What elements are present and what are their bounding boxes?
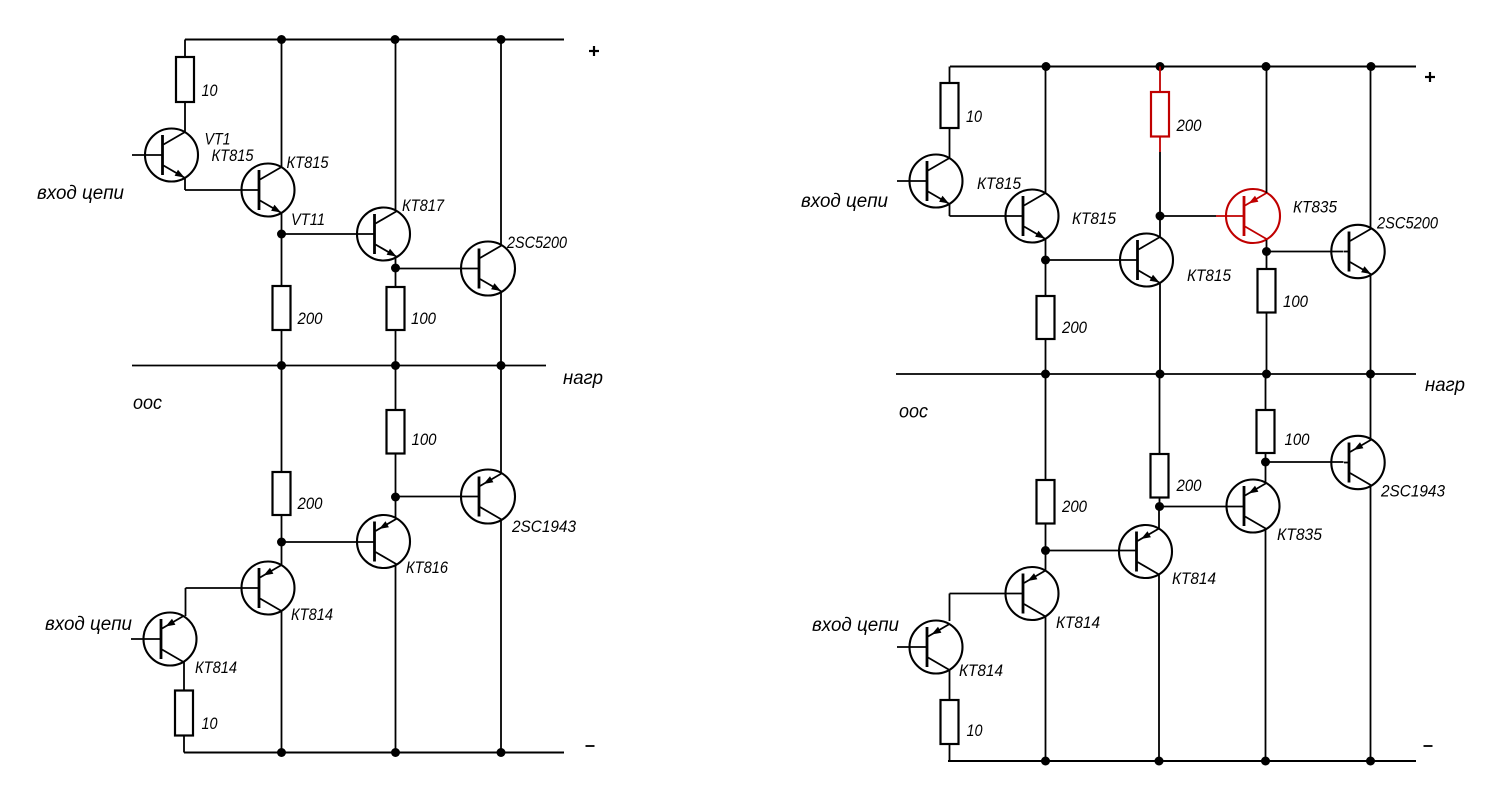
wire KT815 emitter junction down to resistor 200 (right upper): [1045, 260, 1047, 296]
svg-text:вход цепи: вход цепи: [801, 191, 888, 212]
wire resistor 200 to junction: [1045, 524, 1047, 551]
wire junction down to resistor 100 (right upper): [1266, 252, 1268, 270]
wire resistor 200 down to load rail (right): [1045, 339, 1047, 374]
node junction top rail / KT815 collector column: [277, 35, 286, 44]
svg-text:КТ814: КТ814: [291, 605, 333, 624]
node bottom rail / KT814 column (right): [1041, 757, 1050, 766]
svg-text:КТ814: КТ814: [195, 658, 237, 677]
wire KT814 collector down to resistor 10: [183, 662, 185, 691]
svg-text:100: 100: [412, 430, 437, 449]
resistor 100 (lower, left schematic): [387, 410, 405, 454]
wire top rail down to resistor 10 (right): [949, 67, 951, 84]
resistor 100 (lower, right schematic): [1257, 410, 1275, 453]
wire junction to 2SC1943 base: [396, 496, 480, 498]
wire KT814 collector down to bottom rail: [1158, 575, 1160, 762]
transistor KT815 (input, upper right): [897, 155, 963, 208]
wire junction to 2SC5200 base: [396, 268, 480, 270]
svg-text:200: 200: [297, 494, 323, 513]
wire junction to KT815 third base: [1046, 259, 1138, 261]
svg-text:10: 10: [202, 81, 218, 100]
resistor 200 (upper mid, right schematic): [1037, 296, 1055, 339]
wire KT835 collector down to junction: [1266, 240, 1268, 252]
transistor KT814 (input, lower left): [131, 613, 197, 666]
node top rail / 2SC5200 collector column (right): [1367, 62, 1376, 71]
transistor KT835 (red, upper right): [1226, 189, 1280, 243]
svg-text:вход цепи: вход цепи: [45, 614, 132, 635]
wire resistor 10 to VT1 collector: [184, 102, 186, 132]
resistor 10 (top left): [176, 57, 194, 102]
node top rail / KT815 collector column (right): [1042, 62, 1051, 71]
wire 2SC1943 emitter up to load rail (right): [1370, 374, 1372, 439]
wire KT814 collector down to resistor 10 (right): [949, 671, 951, 701]
wire resistor 100 down to load rail (right): [1266, 313, 1268, 375]
wire load rail down to resistor 200 (col 1160 lower): [1159, 374, 1161, 454]
svg-text:200: 200: [1061, 497, 1087, 516]
wire KT815 emitter down to junction (right): [1045, 240, 1047, 261]
transistor VT1 KT815 (input, upper left): [132, 129, 198, 182]
wire junction to KT816 base: [282, 541, 375, 543]
wire KT835 collector down to bottom rail: [1265, 530, 1267, 761]
wire junction to KT814 third base: [1046, 550, 1137, 552]
node load rail / KT815 emitter column (right): [1156, 370, 1165, 379]
svg-text:100: 100: [1285, 430, 1310, 449]
wire 2SC1943 collector down to bottom rail (right): [1370, 486, 1372, 762]
transistor KT814 (input, lower right): [897, 621, 963, 674]
node junction top rail / KT817 collector column: [391, 35, 400, 44]
wire KT814 base to input transistor (right): [950, 593, 1024, 595]
resistor 200 (lower, right schematic col3): [1151, 454, 1169, 498]
wire junction to KT835 base (black part): [1160, 215, 1216, 217]
transistor KT816 (driver, lower left): [357, 515, 410, 568]
wire load rail down to resistor 100 (right lower): [1265, 374, 1267, 410]
svg-text:вход цепи: вход цепи: [37, 183, 124, 204]
wire KT816 collector down to bottom rail: [395, 565, 397, 753]
svg-text:КТ814: КТ814: [959, 661, 1003, 680]
svg-text:КТ814: КТ814: [1056, 613, 1100, 632]
wire load rail down to resistor 100 lower: [395, 366, 397, 411]
svg-text:КТ816: КТ816: [406, 558, 448, 577]
svg-text:оос: оос: [133, 393, 162, 414]
wire VT1 emitter down: [184, 179, 186, 191]
svg-text:КТ815: КТ815: [1187, 266, 1231, 285]
wire resistor 200 to junction (col3): [1159, 498, 1161, 507]
svg-text:2SC1943: 2SC1943: [511, 517, 576, 536]
wire KT835 base lead (red part): [1216, 215, 1244, 217]
transistor KT815 (second stage, upper right): [1006, 190, 1059, 243]
svg-text:10: 10: [202, 714, 218, 733]
svg-text:КТ815: КТ815: [977, 174, 1021, 193]
svg-text:2SC5200: 2SC5200: [506, 233, 567, 252]
svg-text:200: 200: [297, 309, 323, 328]
wire load rail down to resistor 200 lower: [281, 366, 283, 473]
transistor 2SC5200 (output, upper right): [1331, 225, 1384, 278]
wire KT814 collector down to bottom rail (right): [1045, 617, 1047, 761]
wire resistor 100 lower to junction: [395, 454, 397, 498]
wire 2SC1943 collector down to bottom rail: [500, 520, 502, 753]
node KT816 base junction: [277, 538, 286, 547]
wire top supply rail + (left schematic): [185, 38, 564, 40]
wire KT815 emitter down to node VT11: [281, 214, 283, 235]
wire KT815 emitter down: [949, 204, 951, 216]
wire bottom supply rail - (right schematic): [948, 760, 1416, 762]
node junction top rail / 2SC5200 collector column: [497, 35, 506, 44]
wire 2SC5200 collector up to top rail: [500, 40, 502, 246]
node VT11 junction: [277, 230, 286, 239]
wire resistor 100 down to load rail: [395, 330, 397, 366]
transistor KT835 (lower right): [1227, 480, 1280, 533]
power - terminal label (right): [1424, 745, 1433, 747]
transistor KT815 (third stage, mid right): [1120, 234, 1173, 287]
svg-text:КТ815: КТ815: [1072, 209, 1116, 228]
wire KT815 emitter down to load rail (right): [1159, 284, 1161, 375]
svg-text:200: 200: [1061, 318, 1087, 337]
wire 2SC5200 emitter down to load rail (right): [1370, 275, 1372, 374]
wire red resistor down (red part): [1159, 137, 1161, 153]
wire KT814 emitter up to junction: [281, 542, 283, 565]
transistor 2SC1943 (output, lower left): [461, 470, 515, 524]
svg-text:оос: оос: [899, 402, 928, 423]
node top rail / KT835 emitter column: [1262, 62, 1271, 71]
resistor 10 (top right schematic): [941, 83, 959, 128]
wire VT1 emitter to KT815 base: [185, 189, 259, 191]
wire top rail down to red resistor: [1159, 67, 1161, 93]
node bottom rail / KT814 column: [277, 748, 286, 757]
node KT817 emitter junction: [391, 264, 400, 273]
wire resistor 10 to KT815 collector: [949, 128, 951, 158]
wire middle load rail (нагр, left schematic): [132, 365, 546, 367]
wire node VT11 to KT817 base: [282, 233, 375, 235]
wire bottom supply rail - (left schematic): [184, 751, 564, 753]
svg-text:VT11: VT11: [291, 210, 325, 229]
wire KT815 collector up to top rail (right): [1045, 67, 1047, 193]
transistor KT815 (second stage, upper left): [242, 164, 295, 217]
wire KT835 emitter up to junction: [1265, 462, 1267, 483]
node load rail / 100 column: [391, 361, 400, 370]
node load rail / 200 column (right): [1041, 370, 1050, 379]
svg-text:КТ835: КТ835: [1277, 525, 1322, 544]
wire KT815 emitter to second KT815 base: [950, 215, 1024, 217]
resistor 200 (lower mid, right schematic): [1037, 480, 1055, 524]
svg-text:10: 10: [967, 721, 983, 740]
wire 2SC5200 emitter down to load rail: [500, 292, 502, 366]
power - terminal label (left): [586, 745, 595, 747]
svg-text:200: 200: [1176, 116, 1202, 135]
transistor KT814 (second stage, lower left): [242, 562, 295, 615]
svg-text:100: 100: [1283, 292, 1308, 311]
wire KT814 base to input transistor: [186, 587, 260, 589]
svg-text:КТ835: КТ835: [1293, 198, 1337, 217]
resistor 200 (lower mid, left schematic): [273, 472, 291, 515]
svg-text:вход цепи: вход цепи: [812, 615, 899, 636]
power + terminal label (right): [1425, 76, 1435, 78]
node bottom rail / KT816 column: [391, 748, 400, 757]
wire resistor 10 to bottom rail (right): [949, 744, 951, 761]
wire red resistor down to junction (black part): [1159, 152, 1161, 216]
node load rail / output emitters (right): [1366, 370, 1375, 379]
resistor 100 (upper, left schematic): [387, 287, 405, 330]
wire load rail down to resistor 200 (right lower mid): [1045, 374, 1047, 480]
resistor 10 (bottom right schematic): [941, 700, 959, 744]
node KT814 emitter / KT814 base junction (right): [1041, 546, 1050, 555]
node load rail / output emitters: [497, 361, 506, 370]
wire VT11 node down to resistor 200 upper: [281, 234, 283, 286]
wire KT816 emitter up to junction: [395, 497, 397, 518]
wire junction to 2SC1943 base (right): [1266, 461, 1344, 463]
wire KT814 emitter up to junction: [1158, 507, 1160, 529]
resistor 200 (red, upper right): [1151, 92, 1169, 137]
wire 2SC1943 emitter up to load rail: [500, 366, 502, 474]
node load rail / 100 column (right): [1262, 370, 1271, 379]
resistor 200 (upper mid, left schematic): [273, 286, 291, 330]
node top rail / red resistor column: [1156, 62, 1165, 71]
node junction KT815 collector / red resistor / KT835 base: [1156, 212, 1165, 221]
transistor KT814 (third stage, lower right): [1119, 525, 1172, 578]
node KT835 collector / 100 / 2SC5200 base junction: [1262, 247, 1271, 256]
transistor KT817 (driver, upper left): [357, 208, 410, 261]
wire KT817 collector up to top rail: [395, 40, 397, 211]
transistor KT814 (second stage, lower right): [1006, 567, 1059, 620]
wire junction to 2SC5200 base (right): [1267, 251, 1344, 253]
wire KT817 emitter junction down to resistor 100 upper: [395, 268, 397, 287]
svg-text:2SC5200: 2SC5200: [1376, 214, 1438, 233]
resistor 100 (upper, right schematic): [1258, 269, 1276, 313]
wire junction to KT835 base (lower): [1160, 506, 1244, 508]
svg-text:КТ817: КТ817: [402, 196, 444, 215]
node bottom rail / 2SC1943 column (right): [1366, 757, 1375, 766]
node bottom rail / 2SC1943 column: [497, 748, 506, 757]
wire KT814 emitter up to junction (right): [1045, 551, 1047, 571]
node KT835 emitter / 100 / 2SC1943 base junction (right): [1261, 458, 1270, 467]
wire resistor 200 down to load rail: [281, 330, 283, 366]
svg-text:КТ815: КТ815: [287, 153, 329, 172]
wire KT814 collector down to bottom rail: [281, 612, 283, 753]
wire KT815 collector up to top rail: [281, 40, 283, 167]
wire from top rail down to resistor 10: [184, 40, 186, 58]
resistor 10 (bottom left): [175, 691, 193, 736]
svg-text:КТ814: КТ814: [1172, 569, 1216, 588]
wire KT815 collector up to red resistor junction: [1159, 216, 1161, 237]
svg-text:нагр: нагр: [563, 368, 603, 389]
svg-text:10: 10: [966, 107, 982, 126]
svg-text:2SC1943: 2SC1943: [1380, 482, 1445, 501]
wire resistor 100 to junction (right lower): [1265, 453, 1267, 462]
svg-text:КТ815: КТ815: [212, 146, 254, 165]
wire KT835 emitter up to top rail: [1266, 67, 1268, 194]
node bottom rail / KT814 third column: [1155, 757, 1164, 766]
wire 2SC5200 collector up to top rail (right): [1370, 67, 1372, 229]
node KT814 emitter / KT835 base junction: [1155, 502, 1164, 511]
wire resistor 200 lower to junction: [281, 515, 283, 542]
transistor 2SC1943 (output, lower right): [1331, 436, 1384, 489]
svg-text:100: 100: [411, 309, 436, 328]
node bottom rail / KT835 column: [1261, 757, 1270, 766]
wire middle load rail (нагр, right schematic): [896, 373, 1416, 375]
wire resistor 10 to bottom rail: [183, 736, 185, 753]
wire top supply rail + (right schematic): [950, 65, 1416, 67]
power + terminal label: [589, 50, 599, 52]
wire KT817 emitter down to junction: [395, 258, 397, 269]
svg-text:200: 200: [1176, 476, 1202, 495]
node KT815 emitter junction (right): [1041, 256, 1050, 265]
node KT816 emitter / 100 / 2SC1943 base junction: [391, 493, 400, 502]
svg-text:нагр: нагр: [1425, 375, 1465, 396]
transistor 2SC5200 (output, upper left): [461, 242, 515, 296]
node load rail / 200 column: [277, 361, 286, 370]
